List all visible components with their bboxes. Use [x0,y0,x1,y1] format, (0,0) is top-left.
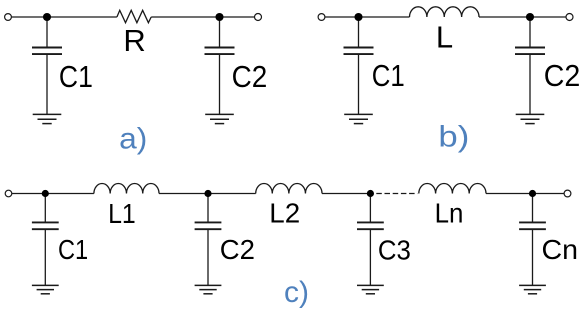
capacitor C3 plates (c) [357,222,384,229]
capacitor C3 bottom lead wire (c) [369,229,371,285]
wire input terminal to inductor [325,16,410,18]
capacitor C2 plates [205,48,235,55]
capacitor C1 bottom lead wire (b) [358,54,360,114]
capacitor C1 plates (c) [32,222,59,229]
capacitor C3 top lead wire (c) [369,194,371,223]
dashed wire (omitted sections) [376,193,417,195]
open input terminal (a) [5,14,12,21]
inductor Ln [419,184,486,194]
capacitor C1 bottom lead wire [46,54,48,114]
node junction dot 2 (c) [204,190,211,197]
svg-text:C1: C1 [372,58,405,93]
open output terminal (a) [255,14,262,21]
ground under C2 (b) [516,114,545,123]
node junction dot 3 (c) [367,190,374,197]
capacitor C1 bottom lead wire (c) [44,229,46,285]
svg-text:L1: L1 [108,198,136,229]
capacitor Cn plates (c) [519,222,546,229]
ground under C1 (c) [32,285,59,293]
svg-text:C2: C2 [220,234,255,265]
open output terminal (c) [564,190,571,197]
node junction dot left (b) [354,13,362,21]
inductor L1 [94,184,159,194]
capacitor C2 plates (c) [195,222,222,229]
svg-text:b): b) [438,121,469,154]
wire L1 to L2 [159,193,256,195]
open output terminal (b) [566,14,573,21]
capacitor C2 plates (b) [515,48,545,55]
svg-text:R: R [123,23,145,58]
capacitor C2 top lead wire (c) [207,194,209,223]
capacitor C1 plates [32,48,62,55]
svg-text:a): a) [119,122,147,155]
open input terminal (b) [318,14,325,21]
capacitor Cn top lead wire (c) [532,194,534,223]
ground under C1 (b) [344,114,373,123]
svg-text:c): c) [284,276,309,309]
capacitor C2 bottom lead wire (b) [529,54,531,114]
inductor L2 [256,184,322,194]
wire inductor to output terminal [479,16,566,18]
capacitor C2 top lead wire [219,17,221,48]
ground under C2 (c) [195,285,222,293]
inductor L [410,7,480,17]
svg-text:C1: C1 [59,59,93,94]
node junction dot 4 (c) [529,190,536,197]
resistor R [117,10,151,22]
capacitor C1 top lead wire [46,17,48,48]
capacitor C1 top lead wire (c) [44,194,46,223]
svg-text:C1: C1 [58,234,88,265]
capacitor C2 bottom lead wire (c) [207,229,209,285]
capacitor C1 plates (b) [344,48,374,55]
node junction dot right (b) [526,13,534,21]
svg-text:C3: C3 [378,235,411,266]
svg-text:Cn: Cn [542,234,579,265]
wire input terminal to inductor L1 [12,193,94,195]
svg-text:L2: L2 [269,198,300,229]
wire Ln to output terminal [486,193,564,195]
node junction dot 1 (c) [42,190,49,197]
node junction dot left (a) [43,13,51,21]
svg-text:Ln: Ln [435,198,464,229]
open input terminal (c) [5,190,12,197]
capacitor C1 top lead wire (b) [358,17,360,48]
ground under C3 (c) [357,285,384,293]
svg-text:C2: C2 [544,58,581,93]
wire resistor to output terminal [151,16,254,18]
capacitor C2 bottom lead wire [219,54,221,114]
capacitor C2 top lead wire (b) [529,17,531,48]
capacitor Cn bottom lead wire (c) [532,229,534,285]
wire input terminal to resistor [11,16,117,18]
svg-text:L: L [436,20,453,55]
svg-text:C2: C2 [232,59,268,94]
ground under C1 [33,114,62,123]
node junction dot right (a) [215,13,223,21]
ground under Cn (c) [519,285,546,293]
wire L2 to node C3 [322,193,370,195]
ground under C2 [205,114,234,123]
